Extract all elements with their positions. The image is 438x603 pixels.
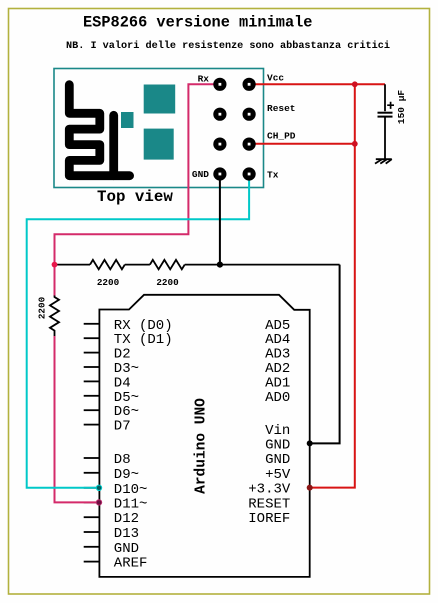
left pin stubs bbox=[84, 324, 100, 562]
small chip square bbox=[121, 112, 134, 128]
wire: cyan Tx to D10 bbox=[27, 174, 249, 488]
Arduino UNO box bbox=[99, 295, 309, 577]
svg-text:AREF: AREF bbox=[114, 556, 148, 572]
svg-text:GND: GND bbox=[192, 169, 209, 180]
svg-text:Arduino UNO: Arduino UNO bbox=[194, 398, 210, 494]
svg-text:D10~: D10~ bbox=[114, 482, 148, 498]
chip square 1 bbox=[144, 85, 176, 114]
capacitor C1 leads bbox=[384, 84, 386, 111]
resistor R1 2200 bbox=[90, 260, 125, 269]
antenna feed stub bbox=[109, 115, 118, 175]
wire: red CH_PD to bus bbox=[249, 143, 355, 145]
svg-text:GND: GND bbox=[265, 437, 290, 453]
arduino right labels bbox=[248, 318, 291, 527]
wire: red Vcc to cap bbox=[249, 83, 385, 85]
junction dot gnd wire bbox=[217, 262, 223, 268]
svg-text:D8: D8 bbox=[114, 452, 131, 468]
svg-text:+5V: +5V bbox=[265, 467, 291, 483]
svg-text:D11~: D11~ bbox=[114, 496, 148, 512]
wire: between resistors bbox=[125, 264, 150, 266]
junction dot Vcc bbox=[352, 81, 358, 87]
svg-text:Tx: Tx bbox=[267, 169, 279, 180]
arduino left labels bbox=[114, 318, 173, 572]
svg-text:Vin: Vin bbox=[265, 423, 290, 439]
resistor R2 2200 bbox=[150, 260, 185, 269]
svg-text:NB. I valori delle resistenze: NB. I valori delle resistenze sono abbas… bbox=[66, 40, 390, 52]
svg-text:Top view: Top view bbox=[97, 188, 173, 206]
svg-text:RESET: RESET bbox=[248, 496, 290, 512]
svg-text:D9~: D9~ bbox=[114, 467, 139, 483]
wire: black GND pin down bbox=[219, 174, 221, 265]
svg-text:2200: 2200 bbox=[156, 277, 179, 288]
wire: resistor to GND junction and right bbox=[185, 264, 340, 266]
wire: pink Rx to divider bbox=[55, 84, 220, 264]
svg-text:Reset: Reset bbox=[267, 103, 296, 114]
antenna meander bbox=[69, 85, 129, 176]
plus sign bbox=[387, 102, 394, 109]
chip square 2 bbox=[144, 129, 174, 160]
ground symbol bbox=[375, 159, 392, 163]
wire: black down to arduino GND bbox=[310, 265, 340, 444]
svg-text:D12: D12 bbox=[114, 511, 139, 527]
node dot D10 cyan bbox=[96, 485, 101, 490]
svg-text:ESP8266 versione minimale: ESP8266 versione minimale bbox=[83, 14, 313, 32]
wire: pink resistor to D11 bbox=[55, 336, 100, 502]
node dot D11 maroon bbox=[96, 500, 101, 505]
svg-text:CH_PD: CH_PD bbox=[267, 131, 296, 142]
svg-text:+3.3V: +3.3V bbox=[248, 482, 291, 498]
wire: red bus down to +3.3V bbox=[310, 84, 355, 487]
capacitor C1 plates bbox=[378, 112, 393, 114]
wire: divider line left bbox=[55, 264, 91, 266]
svg-text:D13: D13 bbox=[114, 526, 139, 542]
svg-text:150 µF: 150 µF bbox=[396, 90, 407, 125]
svg-text:2200: 2200 bbox=[37, 296, 48, 319]
svg-text:GND: GND bbox=[114, 541, 139, 557]
svg-text:2200: 2200 bbox=[97, 277, 120, 288]
svg-text:D7: D7 bbox=[114, 419, 131, 435]
junction dot divider bbox=[52, 262, 58, 268]
junction dot CH_PD bbox=[352, 141, 358, 147]
wire: pink divider to resistor bbox=[54, 265, 56, 296]
node dot arduino 3.3V bbox=[307, 485, 313, 491]
header pins ESP (8 circles) bbox=[213, 78, 255, 181]
svg-text:Rx: Rx bbox=[198, 74, 210, 85]
svg-text:AD0: AD0 bbox=[265, 390, 290, 406]
svg-text:IOREF: IOREF bbox=[248, 511, 290, 527]
resistor R3 2200 vertical bbox=[50, 296, 59, 337]
svg-text:Vcc: Vcc bbox=[267, 73, 284, 84]
ESP8266 module outline bbox=[54, 69, 264, 188]
node dot arduino GND bbox=[307, 440, 313, 446]
svg-text:GND: GND bbox=[265, 452, 290, 468]
